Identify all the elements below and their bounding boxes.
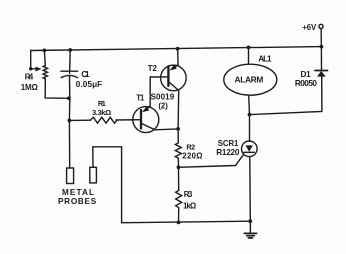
svg-text:S0019: S0019 (151, 92, 175, 101)
svg-text:ALARM: ALARM (235, 75, 264, 85)
svg-text:+6V: +6V (302, 23, 317, 32)
svg-text:METAL: METAL (62, 188, 94, 197)
svg-text:(2): (2) (158, 102, 168, 111)
svg-text:R2: R2 (186, 143, 195, 152)
svg-text:R1: R1 (98, 99, 106, 108)
svg-text:R4: R4 (25, 72, 34, 81)
svg-text:AL1: AL1 (258, 54, 272, 63)
svg-text:0.05μF: 0.05μF (76, 80, 102, 89)
svg-text:R1220: R1220 (216, 148, 240, 157)
svg-text:PROBES: PROBES (58, 197, 97, 206)
svg-text:R3: R3 (184, 190, 193, 199)
svg-text:1MΩ: 1MΩ (21, 83, 39, 92)
svg-text:T2: T2 (148, 64, 158, 73)
svg-text:SCR1: SCR1 (218, 139, 239, 148)
svg-text:T1: T1 (136, 94, 145, 103)
svg-text:C1: C1 (81, 70, 90, 79)
svg-text:220Ω: 220Ω (182, 152, 202, 161)
svg-text:3.3kΩ: 3.3kΩ (92, 108, 111, 117)
svg-text:R0050: R0050 (295, 79, 317, 88)
svg-text:D1: D1 (301, 70, 312, 79)
svg-text:1kΩ: 1kΩ (183, 201, 196, 210)
